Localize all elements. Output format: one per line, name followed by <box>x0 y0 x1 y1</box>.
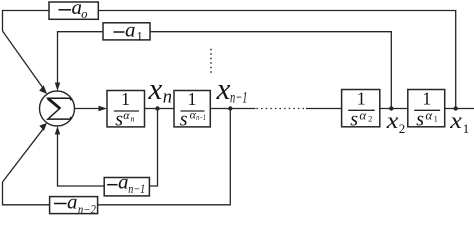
svg-text:2: 2 <box>399 121 406 136</box>
wire dotted continuation of main line <box>257 108 307 110</box>
summer sigma symbol <box>48 98 71 119</box>
svg-text:α: α <box>123 108 130 122</box>
wire diagonal -a_o into summer <box>3 31 44 89</box>
wire -a_{n-2} output to left edge and up <box>3 182 50 205</box>
label x_1 <box>449 108 469 136</box>
arrowhead -a_{n-2} diagonal into summer <box>39 123 47 131</box>
wire feedback -a_{n-2} from node x_{n-1} <box>98 109 231 205</box>
svg-text:1: 1 <box>434 115 438 124</box>
node x_2 junction dot <box>389 106 393 110</box>
node x_n junction dot <box>155 106 159 110</box>
svg-text:2: 2 <box>368 115 372 124</box>
svg-text:α: α <box>359 107 367 122</box>
svg-text:o: o <box>81 7 87 21</box>
arrowhead into block U1 <box>99 106 108 111</box>
svg-text:s: s <box>416 109 424 131</box>
wire -a_o output to left edge and down <box>3 11 50 32</box>
svg-text:α: α <box>425 107 433 122</box>
svg-text:a: a <box>118 170 129 194</box>
gain block -a_{n-2} <box>50 190 98 217</box>
wire feedback -a_{n-1} from node x_n <box>149 109 157 187</box>
vertical ellipsis between feedback paths <box>210 49 212 73</box>
node x_{n-1} junction dot <box>228 106 232 110</box>
svg-text:n−1: n−1 <box>230 90 248 107</box>
wire -a_{n-1} output up into summer <box>58 133 105 186</box>
svg-text:n−2: n−2 <box>78 202 96 216</box>
svg-text:1: 1 <box>121 89 130 109</box>
label x_n <box>148 71 173 108</box>
block U3 1/s^alpha_2 <box>342 89 380 131</box>
label x_{n-1} <box>216 71 248 107</box>
label x_2 <box>386 108 406 136</box>
arrowhead -a_1 into summer top <box>55 83 60 92</box>
wire block U1 to block U2 <box>145 108 175 110</box>
block U4 1/s^alpha_1 <box>408 89 445 131</box>
wire main line: summer output to block U1 <box>75 108 101 110</box>
arrowhead -a_{n-1} into summer bottom <box>55 126 60 135</box>
gain block -a_o <box>49 0 98 21</box>
svg-text:x: x <box>386 108 400 133</box>
svg-text:n: n <box>131 115 135 124</box>
block U2 1/s^alpha_{n-1} <box>174 89 210 131</box>
summing junction <box>40 91 75 126</box>
block U1 1/s^alpha_n <box>107 89 145 131</box>
wire diagonal -a_{n-2} into summer <box>3 128 45 182</box>
arrowhead -a_o diagonal into summer <box>39 85 47 94</box>
svg-text:n−1: n−1 <box>196 113 206 122</box>
wire block U3 to block U4 <box>380 108 408 110</box>
svg-text:s: s <box>350 109 358 131</box>
svg-text:1: 1 <box>422 89 431 109</box>
svg-text:s: s <box>115 109 123 131</box>
svg-text:a: a <box>125 18 136 42</box>
wire -a_1 output down into summer <box>58 32 104 84</box>
wire dotted break to block U3 <box>306 108 342 110</box>
wire block U4 output to right edge <box>445 108 474 110</box>
gain block -a_{n-1} <box>104 170 149 196</box>
gain block -a_1 <box>103 18 150 44</box>
svg-text:x: x <box>148 71 163 106</box>
svg-text:x: x <box>449 108 463 133</box>
svg-text:1: 1 <box>463 121 470 136</box>
svg-text:1: 1 <box>188 89 197 109</box>
svg-text:1: 1 <box>357 89 366 109</box>
wire feedback -a_1 top line from node x_2 <box>150 32 391 109</box>
node x_1 junction dot <box>454 106 458 110</box>
svg-text:x: x <box>216 71 231 106</box>
svg-text:s: s <box>180 109 188 131</box>
svg-text:a: a <box>67 190 78 214</box>
svg-text:1: 1 <box>137 29 143 43</box>
wire block U2 to dotted break <box>210 108 255 110</box>
wire feedback -a_o top line from node x_1 <box>98 11 455 109</box>
svg-text:n−1: n−1 <box>128 182 145 196</box>
svg-text:n: n <box>163 88 172 108</box>
